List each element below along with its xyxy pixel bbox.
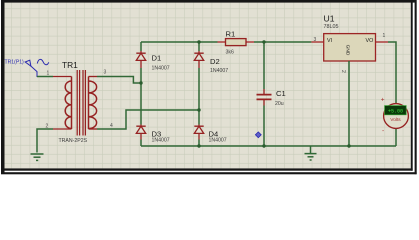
wire U1 output to voltmeter	[388, 42, 396, 104]
capacitor C1	[257, 42, 286, 146]
transformer TR1	[46, 60, 114, 144]
svg-text:3k6: 3k6	[226, 50, 234, 56]
wire bridge right column (D2/D4)	[198, 42, 200, 146]
junction node D2 top rail	[197, 40, 200, 43]
svg-text:VI: VI	[327, 38, 332, 44]
svg-text:VO: VO	[366, 38, 374, 44]
svg-text:1: 1	[47, 71, 50, 77]
svg-text:TRAN-2P2S: TRAN-2P2S	[59, 138, 88, 144]
wire input to TR1 pin1	[37, 76, 53, 78]
svg-text:1N4007: 1N4007	[152, 138, 170, 144]
svg-text:3: 3	[104, 70, 107, 76]
wire TR1 pin3 to bridge node A	[97, 77, 141, 84]
page background	[0, 0, 419, 176]
svg-text:2: 2	[46, 124, 49, 130]
resistor R1	[218, 30, 255, 56]
wire bridge left column (D1/D3)	[140, 42, 142, 146]
input port lead (blue)	[31, 66, 37, 77]
wire top rail to C1	[263, 42, 265, 89]
svg-text:+5.00: +5.00	[388, 108, 403, 114]
TR1 secondary lead pin3	[89, 76, 98, 78]
wire top rail bridge to R1	[141, 41, 218, 43]
U1 output stub pin 1	[376, 41, 389, 43]
diode D2	[194, 51, 203, 68]
regulator U1	[311, 14, 388, 74]
svg-text:GND: GND	[345, 45, 351, 56]
junction node U1 gnd rail	[347, 144, 350, 147]
U1 body	[324, 34, 376, 61]
junction node pin4/bridge	[197, 108, 200, 111]
svg-text:20u: 20u	[275, 101, 284, 107]
diode D4	[194, 125, 203, 140]
TR1 primary lead pin1	[53, 76, 72, 78]
TR1 primary winding	[65, 77, 71, 130]
svg-text:TR1: TR1	[62, 60, 78, 70]
wire U1 ground pin to rail	[348, 61, 350, 146]
wire R1 to U1	[254, 41, 311, 43]
svg-text:4: 4	[110, 123, 113, 129]
voltmeter VM1	[381, 97, 409, 147]
U1 input stub pin 3	[311, 41, 323, 43]
ground (main rail)	[305, 146, 317, 160]
wire bottom ground rail	[141, 145, 396, 147]
svg-text:1: 1	[383, 33, 386, 39]
svg-text:3: 3	[314, 37, 317, 43]
input port triangle glyph	[25, 60, 31, 66]
svg-text:1N4007: 1N4007	[152, 66, 170, 72]
diode D1	[136, 51, 145, 68]
wire voltmeter negative to rail	[395, 129, 397, 147]
sheet background grid	[5, 3, 411, 169]
svg-text:TR1(P1): TR1(P1)	[5, 60, 25, 66]
svg-text:R1: R1	[226, 30, 236, 39]
wire TR1 pin2 to ground	[37, 129, 53, 153]
svg-text:C1: C1	[276, 89, 286, 98]
voltmeter LCD display	[385, 106, 407, 115]
junction node D4 bottom rail	[197, 144, 200, 147]
TR1 core	[77, 70, 85, 136]
svg-text:+: +	[381, 97, 385, 104]
svg-text:1N4007: 1N4007	[209, 138, 227, 144]
junction node C1 top	[262, 40, 265, 43]
diode D3	[136, 125, 145, 140]
junction node pin3/bridge	[139, 81, 142, 84]
junction node C1 bottom rail	[262, 144, 265, 147]
wire C1 to ground rail	[263, 106, 265, 147]
input sine wave glyph	[37, 59, 49, 64]
svg-text:-: -	[382, 128, 384, 135]
svg-text:78L05: 78L05	[324, 24, 339, 30]
TR1 primary lead pin2	[53, 128, 72, 130]
svg-text:D2: D2	[210, 57, 220, 66]
svg-text:D1: D1	[152, 54, 162, 63]
svg-text:U1: U1	[324, 14, 335, 24]
ground (transformer primary)	[31, 154, 44, 160]
svg-text:Volts: Volts	[390, 117, 401, 123]
TR1 secondary lead pin4	[89, 128, 98, 130]
origin marker (blue diamond)	[255, 132, 261, 138]
svg-text:2: 2	[340, 70, 346, 73]
TR1 secondary winding	[89, 77, 97, 130]
wire TR1 pin4 to bridge node B	[97, 110, 199, 129]
svg-text:1N4007: 1N4007	[210, 68, 228, 74]
